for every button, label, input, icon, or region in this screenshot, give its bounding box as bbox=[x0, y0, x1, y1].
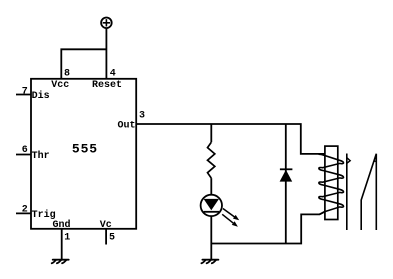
svg-text:7: 7 bbox=[22, 86, 28, 97]
svg-text:Vcc: Vcc bbox=[51, 80, 69, 91]
svg-text:1: 1 bbox=[64, 232, 70, 243]
svg-text:Thr: Thr bbox=[32, 150, 50, 162]
svg-text:Out: Out bbox=[118, 121, 136, 132]
svg-text:Dis: Dis bbox=[32, 90, 50, 102]
svg-text:8: 8 bbox=[64, 68, 70, 79]
svg-text:Gnd: Gnd bbox=[53, 219, 71, 231]
svg-text:Vc: Vc bbox=[100, 220, 112, 231]
svg-text:4: 4 bbox=[110, 68, 116, 79]
svg-text:6: 6 bbox=[22, 145, 28, 156]
svg-text:2: 2 bbox=[22, 205, 28, 216]
svg-text:555: 555 bbox=[72, 141, 98, 156]
svg-text:3: 3 bbox=[139, 111, 145, 122]
svg-text:5: 5 bbox=[109, 232, 115, 243]
svg-text:Reset: Reset bbox=[92, 80, 122, 91]
